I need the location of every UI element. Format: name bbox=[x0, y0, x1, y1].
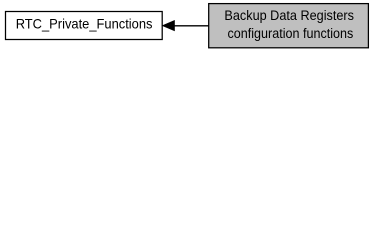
svg-text:RTC_Private_Functions: RTC_Private_Functions bbox=[16, 17, 153, 32]
background bbox=[0, 0, 372, 52]
node Backup Data Registers box bbox=[209, 4, 369, 48]
node RTC_Private_Functions box bbox=[6, 12, 163, 40]
edge arrowhead bbox=[162, 20, 174, 30]
svg-text:Backup Data Registers: Backup Data Registers bbox=[224, 8, 354, 23]
edge wire bbox=[174, 25, 210, 27]
svg-text:configuration functions: configuration functions bbox=[228, 26, 354, 41]
